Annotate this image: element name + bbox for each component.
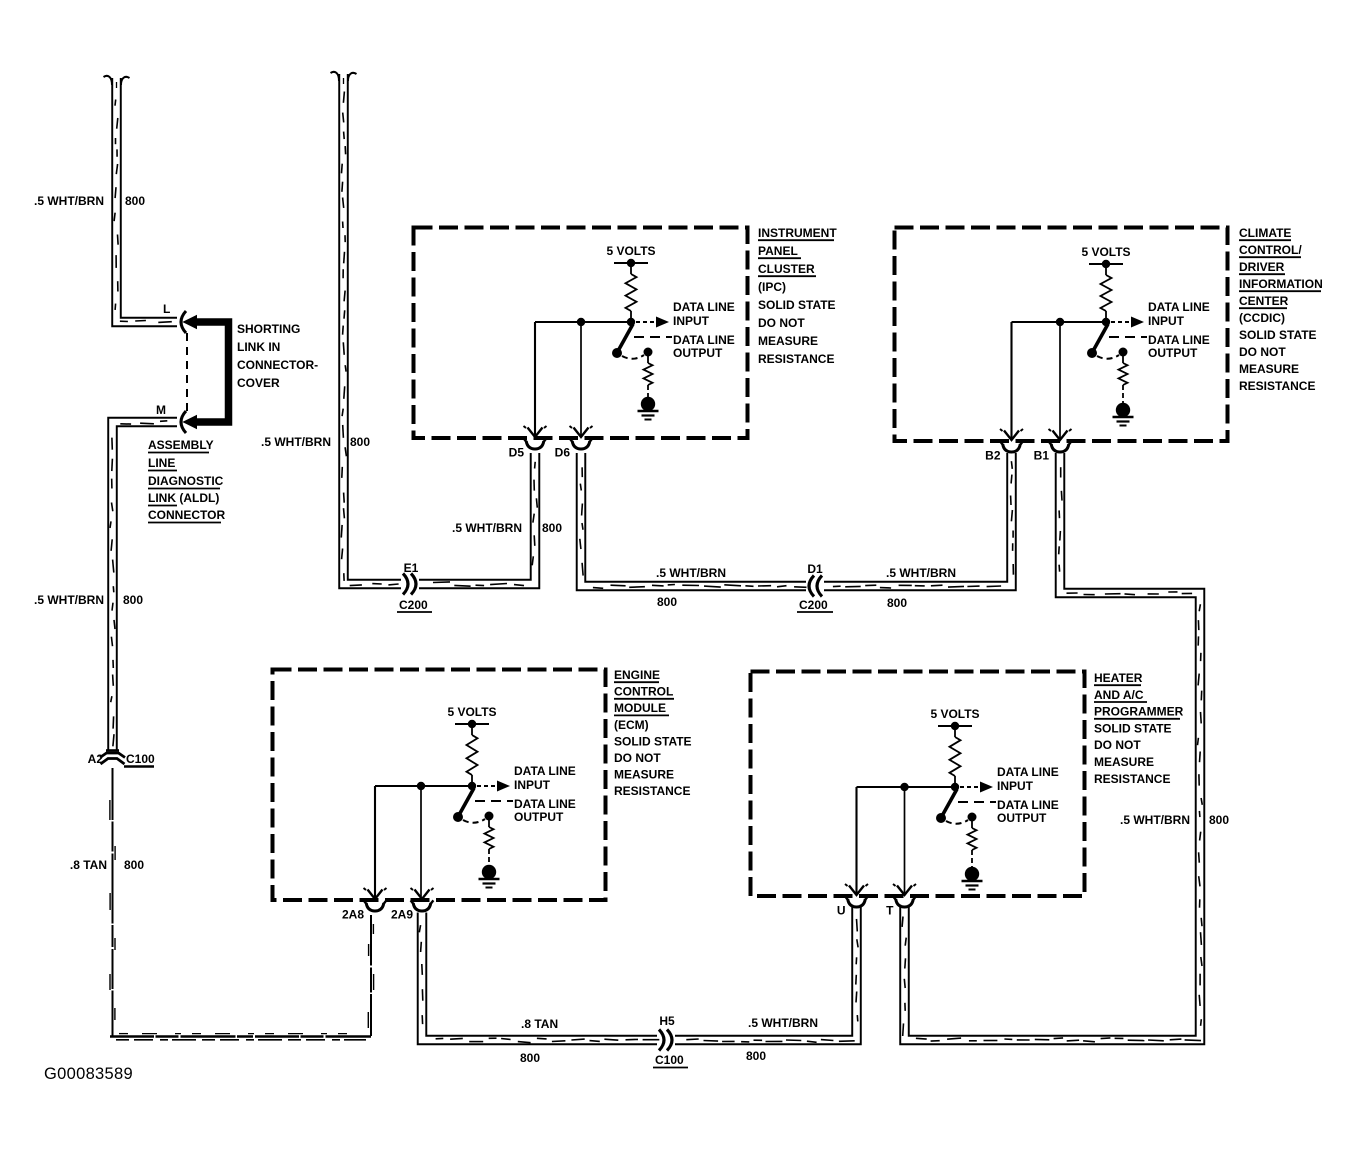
svg-text:MEASURE: MEASURE	[1094, 755, 1154, 769]
module box HEATER-AC (dashed outline)	[751, 672, 1085, 897]
svg-text:800: 800	[125, 194, 145, 208]
label .5 WHT/BRN 800 (E1-D5)	[452, 521, 562, 535]
connector C200 pin D1	[797, 562, 833, 612]
module box ECM (dashed outline)	[273, 670, 606, 901]
label SHORTING LINK IN CONNECTOR-COVER	[237, 322, 318, 390]
label .5 WHT/BRN 800 (right vertical)	[1120, 813, 1229, 827]
IPC internal wire to left pin	[534, 322, 536, 435]
svg-text:C200: C200	[799, 598, 828, 612]
svg-text:5 VOLTS: 5 VOLTS	[1081, 245, 1130, 259]
svg-text:RESISTANCE: RESISTANCE	[758, 352, 834, 366]
CCDIC label DATA LINE INPUT	[1148, 300, 1210, 328]
label .5 WHT/BRN 800 (top left)	[34, 194, 145, 208]
ECM label DATA LINE INPUT	[514, 764, 576, 792]
module box CCDIC (dashed outline)	[895, 228, 1228, 442]
HEATER-AC data line input arrow	[960, 782, 993, 793]
svg-text:SOLID STATE: SOLID STATE	[614, 734, 692, 748]
svg-text:INPUT: INPUT	[514, 778, 551, 792]
svg-text:800: 800	[887, 596, 907, 610]
svg-text:D6: D6	[555, 446, 571, 460]
svg-text:800: 800	[657, 595, 677, 609]
dashed connector-cover boundary between L and M	[186, 333, 188, 412]
CCDIC internal wire to left pin	[1010, 322, 1012, 438]
svg-text:MEASURE: MEASURE	[614, 768, 674, 782]
IPC label DATA LINE OUTPUT	[673, 333, 735, 360]
HEATER-AC pull-down resistor	[968, 821, 977, 868]
svg-text:OUTPUT: OUTPUT	[1148, 346, 1198, 360]
connector C100 pin A2 (in-line connector symbol)	[88, 751, 155, 767]
HEATER-AC dashed pointer to output label	[958, 801, 996, 803]
IPC data line input arrow	[636, 317, 669, 328]
svg-text:SHORTING: SHORTING	[237, 322, 300, 336]
svg-text:DATA LINE: DATA LINE	[673, 333, 735, 347]
svg-text:.5 WHT/BRN: .5 WHT/BRN	[34, 593, 104, 607]
svg-text:INPUT: INPUT	[1148, 314, 1185, 328]
svg-text:L: L	[163, 302, 170, 316]
HEATER-AC internal wire to right pin	[904, 791, 906, 893]
label CLIMATE CONTROL / DRIVER INFORMATION CENTER (CCDIC)	[1239, 226, 1323, 393]
svg-text:E1: E1	[404, 561, 419, 575]
svg-text:CENTER: CENTER	[1239, 294, 1289, 308]
svg-text:DO NOT: DO NOT	[614, 751, 661, 765]
IPC pull-down resistor	[644, 356, 653, 398]
HEATER-AC pull-up resistor	[950, 730, 961, 787]
label HEATER AND A/C PROGRAMMER	[1094, 671, 1184, 786]
IPC pull-up resistor	[626, 267, 637, 322]
svg-text:5 VOLTS: 5 VOLTS	[447, 705, 496, 719]
ECM output switch arm	[453, 788, 494, 823]
svg-text:.5 WHT/BRN: .5 WHT/BRN	[261, 435, 331, 449]
svg-text:CONTROL/: CONTROL/	[1239, 243, 1302, 257]
ALDL pin L terminal	[163, 302, 186, 333]
svg-text:.5 WHT/BRN: .5 WHT/BRN	[1120, 813, 1190, 827]
ECM internal wire to left pin	[374, 786, 376, 897]
svg-text:PANEL: PANEL	[758, 244, 798, 258]
svg-text:.5 WHT/BRN: .5 WHT/BRN	[748, 1016, 818, 1030]
IPC pin D6 terminal	[555, 426, 593, 460]
svg-text:SOLID STATE: SOLID STATE	[758, 298, 836, 312]
svg-text:C100: C100	[126, 752, 155, 766]
wire break hooks top of second wire	[331, 72, 357, 84]
CCDIC data line input arrow	[1111, 317, 1144, 328]
svg-text:OUTPUT: OUTPUT	[514, 810, 564, 824]
svg-text:RESISTANCE: RESISTANCE	[1239, 379, 1315, 393]
ECM pin 2A9 terminal	[391, 888, 434, 922]
svg-text:B1: B1	[1034, 449, 1050, 463]
ECM ground	[479, 865, 500, 888]
HEATER-AC 5 VOLTS supply terminal	[930, 707, 979, 730]
wire 800 (.5 WHT/BRN) from C200 pin E1 to IPC pin D5	[419, 453, 535, 584]
svg-text:DATA LINE: DATA LINE	[997, 798, 1059, 812]
svg-text:5 VOLTS: 5 VOLTS	[930, 707, 979, 721]
label .8 TAN 800 (left)	[70, 858, 144, 872]
label .5 WHT/BRN 800 (left mid)	[34, 593, 143, 607]
svg-text:INFORMATION: INFORMATION	[1239, 277, 1323, 291]
wire 800 (.5 WHT/BRN) from C100 pin H5 to Heater-A/C pin U	[675, 905, 857, 1041]
CCDIC ground	[1113, 403, 1134, 426]
svg-text:U: U	[837, 904, 846, 918]
CCDIC internal wire to right pin	[1059, 326, 1061, 438]
svg-text:OUTPUT: OUTPUT	[997, 811, 1047, 825]
svg-text:800: 800	[350, 435, 370, 449]
ALDL pin M terminal	[156, 403, 186, 433]
wire 800 (.5 WHT/BRN) second top drop to connector C200 pin E1	[344, 74, 402, 584]
HEATER-AC internal wire to left pin	[855, 787, 857, 893]
svg-text:INPUT: INPUT	[997, 779, 1034, 793]
svg-text:CONTROL: CONTROL	[614, 685, 673, 699]
ECM pull-up resistor	[467, 728, 478, 786]
svg-text:CONNECTOR-: CONNECTOR-	[237, 358, 318, 372]
wire 800 (.5 WHT/BRN) from CCDIC pin B1 down right side to Heater-A/C pin T	[905, 453, 1201, 1040]
hatch marks left top wire	[114, 100, 172, 323]
svg-text:DATA LINE: DATA LINE	[1148, 333, 1210, 347]
labels .5 WHT/BRN 800 around D1	[656, 566, 956, 610]
svg-text:A2: A2	[88, 752, 104, 766]
svg-text:T: T	[886, 904, 894, 918]
svg-text:LINE: LINE	[148, 456, 175, 470]
svg-text:COVER: COVER	[237, 376, 280, 390]
svg-text:H5: H5	[659, 1014, 675, 1028]
svg-text:.5 WHT/BRN: .5 WHT/BRN	[656, 566, 726, 580]
CCDIC pin B1 terminal	[1034, 429, 1072, 463]
connector C200 pin E1	[397, 561, 432, 612]
ECM pull-down resistor	[485, 820, 494, 866]
svg-text:DATA LINE: DATA LINE	[1148, 300, 1210, 314]
svg-text:HEATER: HEATER	[1094, 671, 1143, 685]
IPC output switch arm	[612, 324, 653, 359]
labels .8 TAN 800 and .5 WHT/BRN 800 (bottom)	[520, 1016, 818, 1065]
label ENGINE CONTROL MODULE (ECM)	[614, 668, 692, 798]
ECM 5 VOLTS supply terminal	[447, 705, 496, 728]
wire 800 (.8 TAN) from C100 pin A2 down and right to ECM pin 2A8	[110, 768, 374, 1040]
ECM internal wire to right pin	[420, 790, 422, 897]
svg-text:800: 800	[124, 858, 144, 872]
svg-text:AND A/C: AND A/C	[1094, 688, 1144, 702]
CCDIC 5 VOLTS supply terminal	[1081, 245, 1130, 268]
IPC dashed pointer to output label	[634, 336, 672, 338]
svg-text:800: 800	[542, 521, 562, 535]
IPC internal wire to right pin	[580, 326, 582, 435]
ECM pin 2A8 terminal	[342, 888, 387, 922]
svg-text:SOLID STATE: SOLID STATE	[1094, 721, 1172, 735]
HEATER-AC ground	[962, 867, 983, 890]
svg-text:(CCDIC): (CCDIC)	[1239, 311, 1285, 325]
svg-text:CONNECTOR: CONNECTOR	[148, 508, 225, 522]
svg-text:RESISTANCE: RESISTANCE	[1094, 772, 1170, 786]
Heater-A/C pin T terminal	[886, 884, 916, 918]
ECM data line input arrow	[477, 781, 510, 792]
svg-text:C200: C200	[399, 598, 428, 612]
svg-text:.8 TAN: .8 TAN	[521, 1017, 558, 1031]
CCDIC dashed pointer to output label	[1109, 336, 1147, 338]
wire 800 (.5 WHT/BRN) from ALDL pin M down to connector C100 pin A2	[113, 422, 178, 751]
svg-text:C100: C100	[655, 1053, 684, 1067]
svg-text:LINK IN: LINK IN	[237, 340, 280, 354]
svg-text:DO NOT: DO NOT	[758, 316, 805, 330]
svg-text:G00083589: G00083589	[44, 1065, 133, 1083]
svg-text:M: M	[156, 403, 166, 417]
label ASSEMBLY LINE DIAGNOSTIC LINK (ALDL) CONNECTOR	[148, 438, 225, 523]
svg-text:5 VOLTS: 5 VOLTS	[606, 244, 655, 258]
svg-text:RESISTANCE: RESISTANCE	[614, 784, 690, 798]
label INSTRUMENT PANEL CLUSTER (IPC)	[758, 226, 837, 366]
svg-text:DATA LINE: DATA LINE	[514, 764, 576, 778]
svg-text:CLIMATE: CLIMATE	[1239, 226, 1291, 240]
svg-text:.5 WHT/BRN: .5 WHT/BRN	[452, 521, 522, 535]
svg-text:OUTPUT: OUTPUT	[673, 346, 723, 360]
svg-text:MEASURE: MEASURE	[758, 334, 818, 348]
svg-text:INSTRUMENT: INSTRUMENT	[758, 226, 837, 240]
svg-text:DRIVER: DRIVER	[1239, 260, 1285, 274]
svg-text:B2: B2	[985, 449, 1001, 463]
svg-text:D1: D1	[807, 562, 823, 576]
wire 800 (.5 WHT/BRN) from C200 pin D1 to CCDIC pin B2	[824, 453, 1012, 586]
HEATER-AC label DATA LINE OUTPUT	[997, 798, 1059, 825]
IPC pin D5 terminal	[509, 426, 547, 460]
IPC 5 VOLTS supply terminal	[606, 244, 655, 267]
CCDIC pull-down resistor	[1119, 356, 1128, 404]
CCDIC internal data line node	[1012, 318, 1111, 326]
HEATER-AC internal data line node	[857, 783, 960, 791]
svg-text:2A8: 2A8	[342, 908, 364, 922]
label .5 WHT/BRN 800 (second wire)	[261, 435, 370, 449]
svg-text:INPUT: INPUT	[673, 314, 710, 328]
svg-text:800: 800	[1209, 813, 1229, 827]
svg-text:.5 WHT/BRN: .5 WHT/BRN	[34, 194, 104, 208]
svg-text:.5 WHT/BRN: .5 WHT/BRN	[886, 566, 956, 580]
svg-text:D5: D5	[509, 446, 525, 460]
IPC ground	[638, 397, 659, 420]
svg-text:800: 800	[520, 1051, 540, 1065]
HEATER-AC output switch arm	[936, 789, 977, 824]
connector C100 pin H5	[653, 1014, 688, 1068]
svg-text:800: 800	[746, 1049, 766, 1063]
svg-text:MODULE: MODULE	[614, 701, 666, 715]
module box IPC (dashed outline)	[414, 228, 748, 439]
svg-text:DATA LINE: DATA LINE	[673, 300, 735, 314]
svg-text:DATA LINE: DATA LINE	[514, 797, 576, 811]
wire 800 (.5 WHT/BRN) from IPC pin D6 to connector C200 pin D1	[581, 453, 806, 586]
IPC label DATA LINE INPUT	[673, 300, 735, 328]
ECM label DATA LINE OUTPUT	[514, 797, 576, 824]
svg-text:ENGINE: ENGINE	[614, 668, 660, 682]
svg-text:DATA LINE: DATA LINE	[997, 765, 1059, 779]
ECM dashed pointer to output label	[475, 800, 513, 802]
svg-text:2A9: 2A9	[391, 908, 413, 922]
CCDIC pull-up resistor	[1101, 268, 1112, 322]
ECM internal data line node	[375, 782, 476, 790]
IPC internal data line node	[535, 318, 635, 326]
CCDIC label DATA LINE OUTPUT	[1148, 333, 1210, 360]
svg-text:MEASURE: MEASURE	[1239, 362, 1299, 376]
svg-text:(IPC): (IPC)	[758, 280, 786, 294]
svg-text:PROGRAMMER: PROGRAMMER	[1094, 705, 1184, 719]
wire 800 (.8 TAN) from ECM pin 2A9 to connector C100 pin H5	[422, 913, 657, 1041]
svg-text:ASSEMBLY: ASSEMBLY	[148, 438, 214, 452]
svg-text:(ECM): (ECM)	[614, 718, 649, 732]
svg-text:.8 TAN: .8 TAN	[70, 858, 107, 872]
svg-text:LINK (ALDL): LINK (ALDL)	[148, 491, 219, 505]
svg-text:DO NOT: DO NOT	[1094, 738, 1141, 752]
Heater-A/C pin U terminal	[837, 884, 868, 918]
hatch marks left lower wire	[110, 421, 167, 747]
HEATER-AC label DATA LINE INPUT	[997, 765, 1059, 793]
shorting link in connector cover (thick jumper L to M)	[184, 316, 229, 429]
svg-text:800: 800	[123, 593, 143, 607]
CCDIC pin B2 terminal	[985, 429, 1023, 463]
svg-text:DIAGNOSTIC: DIAGNOSTIC	[148, 474, 224, 488]
svg-text:CLUSTER: CLUSTER	[758, 262, 815, 276]
svg-text:DO NOT: DO NOT	[1239, 345, 1286, 359]
wire break hooks top of left wire	[104, 76, 130, 88]
svg-text:SOLID STATE: SOLID STATE	[1239, 328, 1317, 342]
CCDIC output switch arm	[1087, 324, 1128, 359]
wire 800 (.5 WHT/BRN) from top to ALDL pin L	[117, 78, 178, 322]
